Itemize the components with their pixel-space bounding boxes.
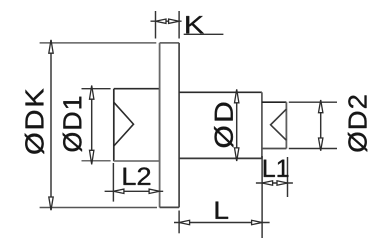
arrowhead L right: [252, 220, 263, 224]
dim D2 top extension line: [289, 101, 337, 103]
dim K right extension line: [178, 11, 180, 39]
arrowhead DK down: [49, 197, 53, 210]
dim L2 left extension line: [112, 163, 114, 202]
arrowhead L1 right: [277, 181, 288, 185]
dim L2 dimension line: [105, 190, 164, 192]
dim L left extension line: [178, 211, 180, 234]
dim L1 right extension line: [287, 157, 289, 197]
flange DK left edge: [159, 43, 161, 208]
arrowhead L left: [179, 220, 190, 224]
arrowhead L2 left: [113, 189, 124, 193]
arrowhead D down: [235, 148, 239, 161]
flange DK right edge: [178, 43, 180, 208]
arrowhead K left: [156, 19, 167, 23]
body cylinder D1 bottom edge: [114, 160, 160, 162]
arrowhead D2 down: [319, 138, 323, 151]
dim D1 dimension line: [91, 86, 93, 163]
dim L1 left extension line (shared with L right): [261, 156, 263, 238]
arrowhead D1 down: [90, 150, 94, 164]
small cylinder D2 bottom edge: [262, 148, 287, 150]
arrowhead D2 up: [319, 100, 323, 113]
dim DK bottom extension line: [40, 207, 157, 209]
body cylinder D1 left edge: [113, 89, 115, 162]
mid cylinder D top edge: [179, 91, 262, 93]
dim K dimension line: [151, 20, 182, 22]
dim D dimension line: [236, 90, 238, 161]
dim DK dimension line: [50, 40, 52, 210]
dim D2 bottom extension line: [289, 148, 337, 150]
arrowhead L1 left: [262, 181, 273, 185]
flange DK bottom edge: [160, 206, 180, 208]
label diameter D1: [63, 97, 82, 152]
body cylinder D1 right edge piece: [159, 89, 161, 162]
label diameter DK: [25, 89, 44, 154]
dim D1 bottom extension line: [82, 160, 111, 162]
arrowhead L2 right: [149, 189, 160, 193]
label diameter D: [214, 103, 233, 148]
label diameter D2: [348, 95, 367, 151]
left bore cone: [114, 102, 134, 146]
dim D1 top extension line: [82, 88, 111, 90]
dim L dimension line: [174, 222, 270, 224]
mid cylinder D right edge: [261, 92, 263, 158]
label L1: [264, 160, 289, 177]
dim L1 dimension line: [256, 182, 293, 184]
label K: [186, 16, 204, 33]
dim K label underline shelf: [184, 33, 224, 35]
label L2: [124, 167, 151, 184]
dim D2 dimension line: [320, 100, 322, 151]
flange DK top edge: [160, 42, 180, 44]
dim DK top extension line: [40, 42, 157, 44]
small cylinder D2 right edge: [285, 102, 287, 148]
body cylinder D1 top edge: [114, 88, 160, 90]
arrowhead D up: [235, 89, 239, 102]
small cylinder D2 top edge: [262, 101, 287, 103]
dim K left extension line: [155, 11, 157, 39]
arrowhead DK up: [49, 40, 53, 53]
arrowhead D1 up: [90, 86, 94, 100]
mid cylinder D bottom edge: [179, 157, 262, 159]
label L: [216, 202, 228, 219]
arrowhead K right: [169, 19, 180, 23]
right bore cone: [271, 109, 287, 140]
